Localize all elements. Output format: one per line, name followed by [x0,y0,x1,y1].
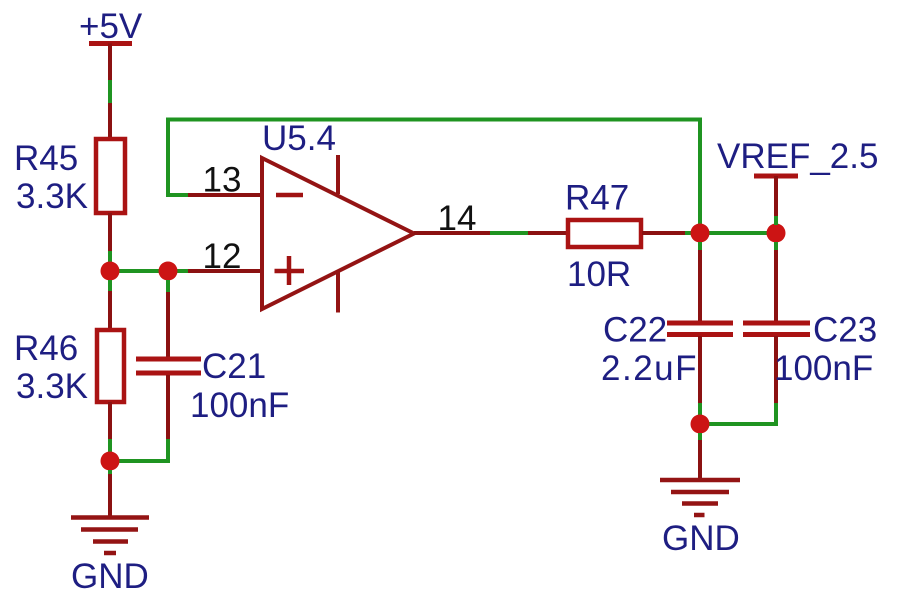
wire node A to R46 [108,280,112,292]
svg-text:100nF: 100nF [774,349,873,388]
svg-text:100nF: 100nF [190,386,289,425]
wire node C to GND [108,470,112,478]
svg-text:VREF_2.5: VREF_2.5 [717,137,878,176]
svg-text:10R: 10R [567,255,631,294]
svg-text:U5.4: U5.4 [262,119,336,158]
resistor R46 [97,291,124,440]
capacitor C21 [136,292,201,439]
svg-text:C21: C21 [202,347,266,386]
wire C21 to node C [110,439,168,461]
pin 13 lead [188,193,262,197]
wire +5V to R45 [108,80,112,103]
svg-text:GND: GND [71,557,149,596]
svg-text:3.3K: 3.3K [16,367,88,406]
wire node D to node E [700,231,776,235]
wire C22 to node F [698,403,702,424]
junction node E [767,224,786,243]
svg-text:R45: R45 [14,139,78,178]
wire node F to GND [698,433,702,441]
feedback wire [168,120,700,234]
ground GND (right) [660,440,740,515]
svg-text:+5V: +5V [79,7,143,46]
svg-text:GND: GND [662,519,740,558]
wire pin 14 to R47 [490,231,529,235]
junction node A [101,262,120,281]
op-amp U5.4 [262,155,414,313]
wire VREF_2.5 to node E [774,216,778,225]
wire R47 to node D [685,231,700,235]
power symbol +5V [89,44,132,81]
resistor R45 [96,103,125,251]
junction node F [691,415,710,434]
capacitor C22 [667,250,733,404]
svg-text:13: 13 [203,161,242,200]
wire R46 to node C [108,439,112,461]
svg-text:C22: C22 [603,311,667,350]
wire R45 to node A [108,251,112,271]
capacitor C23 [743,250,810,404]
junction node B [159,262,178,281]
pin 12 lead [188,269,262,273]
wire node E to C23 [774,242,778,252]
svg-text:C23: C23 [813,311,877,350]
svg-text:12: 12 [203,237,242,276]
junction node D [691,224,710,243]
wire feedback to pin 13 [166,193,189,197]
svg-text:R47: R47 [565,179,629,218]
ground GND (left) [71,474,149,553]
junction node C [101,452,120,471]
wire node B to pin 12 [168,269,189,273]
svg-text:14: 14 [438,199,477,238]
wire node A to node B [110,269,168,273]
power symbol VREF_2.5 [754,176,798,216]
pin 14 lead (op-amp output) [414,231,490,235]
svg-text:R46: R46 [14,329,78,368]
resistor R47 [528,220,686,247]
svg-text:3.3K: 3.3K [16,177,88,216]
wire node D to C22 [698,242,702,252]
wire node B to C21 [166,280,170,293]
svg-text:2.2uF: 2.2uF [601,349,698,388]
wire C23 to node F [700,403,776,424]
